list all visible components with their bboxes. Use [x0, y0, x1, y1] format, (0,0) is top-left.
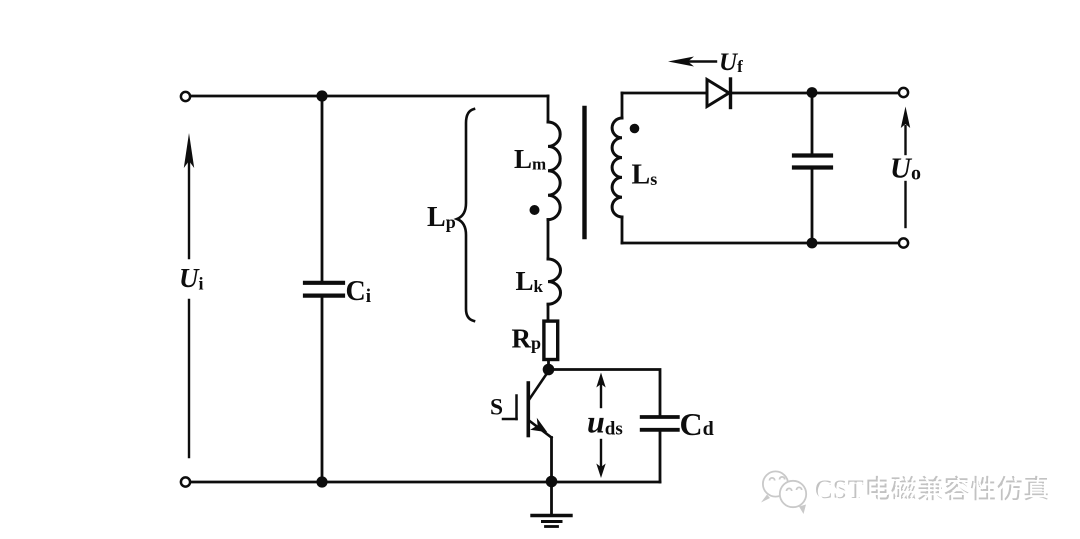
wire: bottom bus from input- terminal to Cd corner — [190, 481, 660, 484]
wire: primary top vertical — [547, 96, 550, 122]
polarity dot secondary — [630, 124, 640, 134]
svg-text:Lm: Lm — [514, 144, 546, 174]
svg-text:Ci: Ci — [346, 276, 372, 307]
node: output bottom junction — [807, 238, 818, 249]
capacitor Cd plates — [642, 415, 678, 419]
terminal output negative — [899, 238, 908, 247]
svg-text:uds: uds — [587, 404, 623, 440]
terminal output positive — [899, 88, 908, 97]
svg-text:Uf: Uf — [719, 49, 743, 76]
svg-text:Lp: Lp — [427, 202, 456, 233]
wire: node B to Cd branch — [549, 370, 661, 416]
terminal input negative — [181, 477, 190, 486]
svg-text:S: S — [490, 395, 503, 421]
wire: emitter to bottom bus — [550, 438, 553, 483]
transistor Q1 gate lead — [503, 418, 517, 421]
svg-text:Rp: Rp — [512, 324, 542, 354]
arrow Uo output voltage — [904, 182, 906, 227]
transistor Q1 emitter arrowhead — [530, 418, 547, 433]
transistor Q1 emitter lead — [529, 421, 552, 438]
svg-text:Lk: Lk — [516, 266, 544, 296]
wire: Co upper lead — [811, 93, 814, 154]
wire: Ci upper lead — [321, 96, 324, 281]
transistor Q1 body bar — [526, 383, 530, 436]
inductor Lm (4 turns) — [548, 122, 560, 220]
wire: Lk to Rp — [547, 304, 550, 321]
svg-text:Ls: Ls — [632, 160, 658, 191]
wire: Ci lower lead — [321, 298, 324, 482]
inductor Lk (2 turns) — [548, 259, 561, 304]
terminal input positive — [181, 92, 190, 101]
capacitor C1 (Ci) plates — [305, 281, 343, 285]
transformer core — [582, 108, 586, 237]
polarity dot primary — [530, 205, 540, 215]
resistor Rp — [544, 321, 558, 359]
wire: between Lm and Lk — [547, 220, 550, 259]
node C: source junction — [546, 476, 558, 488]
svg-text:Uo: Uo — [890, 153, 921, 185]
inductor Ls (5 turns) — [612, 118, 622, 217]
arrow uds (double-headed) — [600, 384, 602, 407]
watermark logo bubbles — [761, 471, 806, 514]
wire: secondary top corner — [622, 92, 707, 95]
wire: Cd lower lead — [659, 432, 662, 483]
node: junction Ci top — [316, 90, 327, 101]
brace Lp — [457, 109, 474, 321]
node B: drain junction — [543, 364, 555, 376]
wire: Rp to node B — [547, 361, 550, 369]
svg-text:Ui: Ui — [179, 263, 204, 294]
wire: secondary bottom — [621, 217, 624, 243]
node: output top junction — [807, 87, 818, 98]
wire: diode to output node — [731, 92, 903, 95]
arrow: Ui input voltage — [188, 300, 190, 457]
wire: Co lower lead — [811, 170, 814, 244]
node: junction Ci bottom — [316, 476, 327, 487]
svg-text:CST电磁兼容性仿真: CST电磁兼容性仿真 — [817, 477, 1052, 506]
arrow Uf — [688, 60, 716, 62]
transistor Q1 (switch S) collector lead — [529, 371, 549, 401]
transistor Q1 gate bar — [515, 396, 518, 420]
ground symbol — [532, 514, 571, 517]
svg-text:Cd: Cd — [680, 406, 714, 442]
diode D1 — [707, 80, 729, 107]
capacitor C2 (output) plates — [794, 153, 831, 157]
wire: ground lead — [550, 482, 553, 514]
wire: top bus from input+ terminal to primary top corner — [190, 95, 548, 98]
